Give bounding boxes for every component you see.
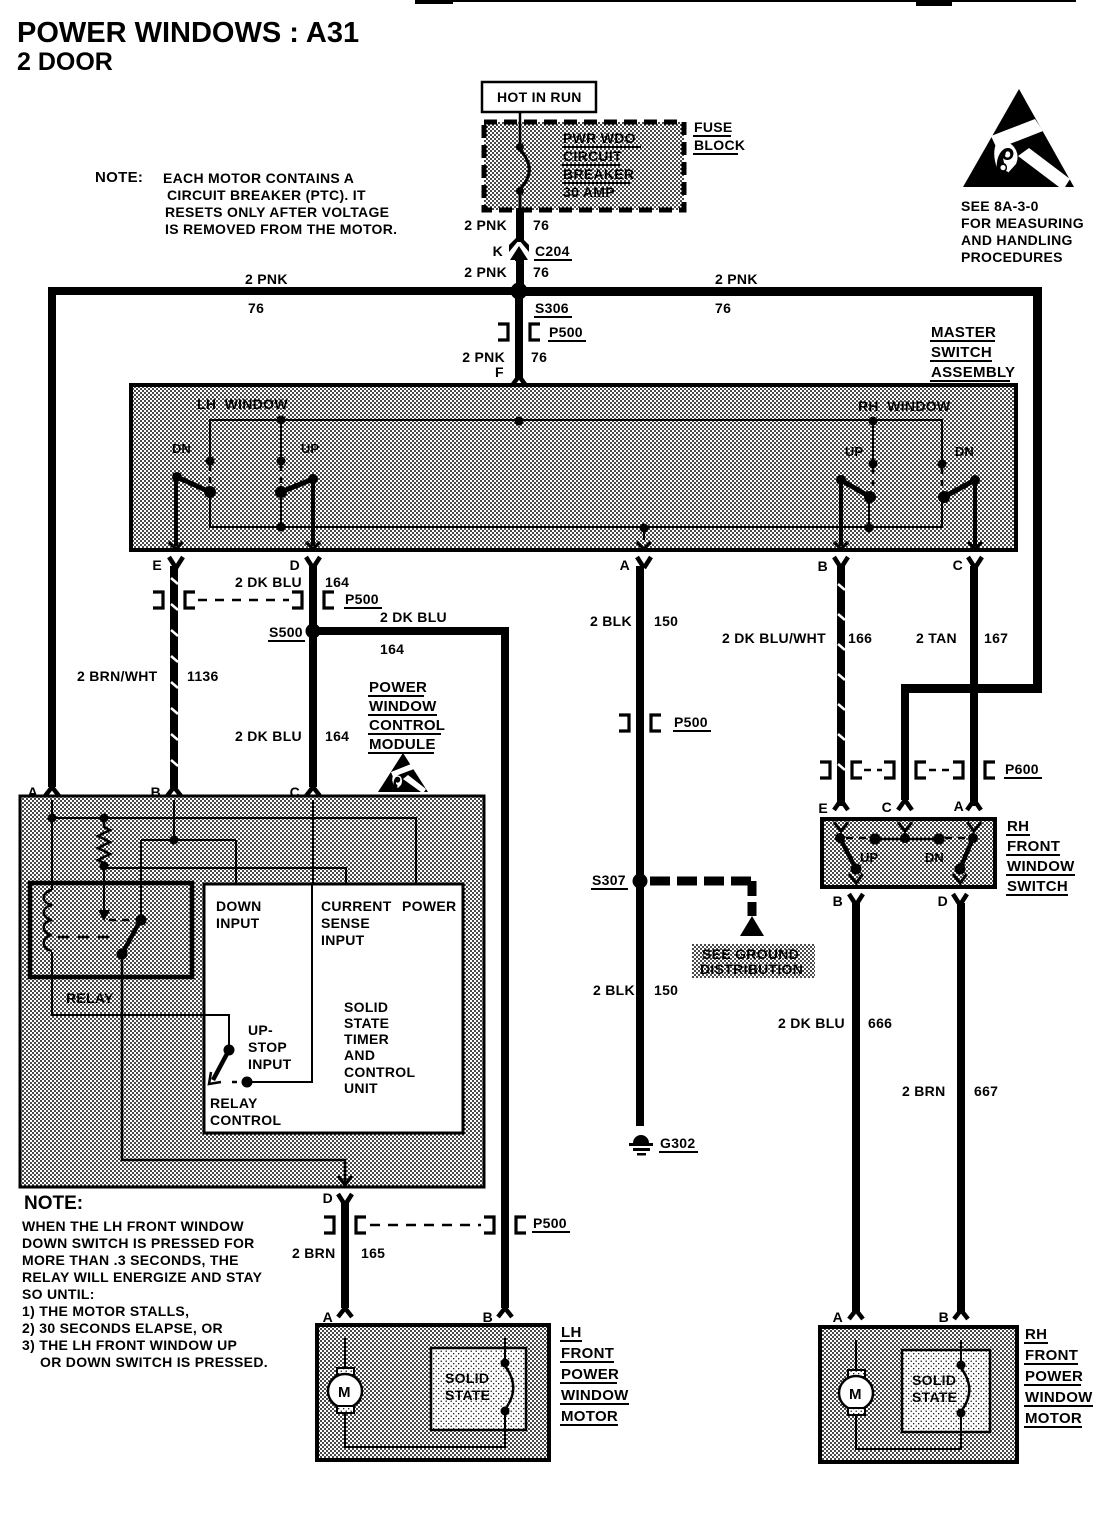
svg-text:B: B (483, 1309, 493, 1325)
connector C204 (493, 235, 572, 261)
connector P500 row D-motor (324, 1215, 570, 1233)
svg-text:667: 667 (974, 1083, 998, 1099)
RH switch contact bar (846, 831, 968, 845)
svg-text:P500: P500 (345, 591, 379, 607)
svg-text:B: B (833, 893, 843, 909)
fuse block label (693, 119, 745, 154)
svg-text:POWER: POWER (402, 898, 456, 914)
svg-text:INPUT: INPUT (216, 915, 260, 931)
svg-text:CONTROL: CONTROL (210, 1112, 281, 1128)
node A ground tap (640, 524, 649, 533)
wire left riser 2 PNK to module A (48, 287, 56, 787)
svg-text:76: 76 (531, 349, 547, 365)
RH UP switch (836, 460, 878, 547)
svg-text:INPUT: INPUT (248, 1056, 292, 1072)
svg-text:SEE 8A-3-0: SEE 8A-3-0 (961, 198, 1039, 214)
svg-text:FUSE: FUSE (694, 119, 733, 135)
master top bus wire (210, 420, 942, 464)
fuse block (484, 122, 684, 210)
power window control module box (20, 796, 484, 1187)
RH motor label (1024, 1326, 1093, 1427)
svg-text:UP: UP (301, 441, 319, 456)
svg-text:C: C (882, 799, 892, 815)
ESD warning symbol large (963, 89, 1074, 187)
LH DN switch (172, 457, 216, 547)
RH switch pin E lead (818, 778, 848, 816)
svg-text:MOTOR: MOTOR (561, 1408, 618, 1425)
svg-text:1136: 1136 (187, 668, 219, 684)
svg-text:2 PNK: 2 PNK (464, 217, 507, 233)
svg-text:D: D (290, 557, 300, 573)
svg-text:P500: P500 (674, 714, 708, 730)
master switch assembly label (930, 324, 1015, 381)
svg-text:C204: C204 (535, 243, 570, 259)
connector P500 row E-D (153, 591, 382, 608)
svg-text:PWR WDO: PWR WDO (563, 130, 636, 146)
svg-text:S307: S307 (592, 872, 626, 888)
svg-text:DOWN SWITCH IS PRESSED FOR: DOWN SWITCH IS PRESSED FOR (22, 1235, 255, 1251)
svg-text:DN: DN (925, 850, 944, 865)
svg-text:STATE: STATE (344, 1015, 389, 1031)
svg-text:INPUT: INPUT (321, 932, 365, 948)
node RH UP lower (865, 524, 874, 533)
svg-text:BLOCK: BLOCK (694, 137, 745, 153)
svg-text:CONTROL: CONTROL (344, 1064, 415, 1080)
svg-text:UP: UP (845, 444, 863, 459)
module terminal B (151, 784, 181, 809)
power window control module label (368, 679, 445, 753)
svg-text:P500: P500 (549, 324, 583, 340)
wire A 2 BLK 150 (590, 566, 678, 876)
svg-text:RELAY WILL ENERGIZE AND STAY: RELAY WILL ENERGIZE AND STAY (22, 1269, 263, 1285)
wire D 2 DK BLU 164 lower (235, 634, 349, 787)
svg-text:S500: S500 (269, 624, 303, 640)
RH motor terminal B (939, 1309, 968, 1342)
node UP feed LH (277, 416, 286, 425)
svg-text:D: D (938, 893, 948, 909)
svg-text:E: E (152, 557, 162, 573)
wire 2 PNK 76 below fuse (464, 208, 549, 242)
LH motor M (328, 1338, 505, 1447)
relay box (30, 883, 192, 1006)
svg-text:165: 165 (361, 1245, 385, 1261)
svg-text:RH WINDOW: RH WINDOW (858, 398, 951, 414)
svg-text:2 DK BLU: 2 DK BLU (235, 574, 302, 590)
svg-text:D: D (323, 1190, 333, 1206)
svg-text:M: M (338, 1384, 351, 1401)
svg-text:A: A (323, 1309, 333, 1325)
svg-text:HOT IN RUN: HOT IN RUN (497, 89, 582, 105)
module current sense bus (104, 866, 346, 884)
svg-text:76: 76 (715, 300, 731, 316)
svg-text:EACH MOTOR CONTAINS A: EACH MOTOR CONTAINS A (163, 170, 354, 186)
relay output wire to D (122, 954, 345, 1184)
svg-text:A: A (620, 557, 630, 573)
LH UP switch (275, 457, 318, 547)
connector P500 on 2 BLK (619, 714, 711, 731)
relay coil feed from resistor (98, 880, 110, 921)
terminal C of master (953, 542, 982, 573)
svg-text:2) 30 SECONDS ELAPSE, OR: 2) 30 SECONDS ELAPSE, OR (22, 1320, 223, 1336)
svg-text:2 DK BLU: 2 DK BLU (778, 1015, 845, 1031)
svg-text:B: B (818, 558, 828, 574)
relay contact feed from B (140, 884, 142, 918)
svg-text:STATE: STATE (445, 1387, 490, 1403)
svg-text:OR DOWN SWITCH IS PRESSED.: OR DOWN SWITCH IS PRESSED. (40, 1354, 268, 1370)
svg-text:RELAY: RELAY (210, 1095, 258, 1111)
svg-text:30 AMP: 30 AMP (563, 184, 615, 200)
LH motor terminal B (483, 1308, 512, 1340)
svg-text:C: C (953, 557, 963, 573)
svg-text:TIMER: TIMER (344, 1031, 389, 1047)
RH switch UP blade (835, 833, 863, 883)
relay control label (210, 1095, 281, 1128)
note bottom (22, 1193, 268, 1370)
node F inside (515, 417, 524, 426)
RH switch pin C lead (882, 764, 912, 815)
master switch assembly box (131, 385, 1016, 550)
svg-text:167: 167 (984, 630, 1008, 646)
RH motor solid state box (902, 1350, 990, 1432)
wire C 2 TAN 167 (916, 566, 1008, 806)
svg-text:DISTRIBUTION: DISTRIBUTION (700, 961, 803, 977)
svg-text:MOTOR: MOTOR (1025, 1410, 1082, 1427)
wire 2 PNK 76 to F (462, 296, 547, 380)
svg-text:FRONT: FRONT (1007, 838, 1060, 855)
svg-text:SO UNTIL:: SO UNTIL: (22, 1286, 95, 1302)
note top (95, 169, 397, 237)
svg-text:666: 666 (868, 1015, 892, 1031)
wire D 2 DK BLU 164 upper (235, 566, 349, 628)
svg-text:UP-: UP- (248, 1022, 273, 1038)
svg-text:POWER: POWER (369, 679, 427, 696)
svg-text:SWITCH: SWITCH (931, 344, 992, 361)
svg-text:WINDOW: WINDOW (561, 1387, 629, 1404)
svg-text:CIRCUIT BREAKER (PTC). IT: CIRCUIT BREAKER (PTC). IT (167, 187, 366, 203)
terminal D of master (290, 542, 320, 573)
svg-text:RH: RH (1025, 1326, 1047, 1343)
svg-text:WINDOW: WINDOW (1025, 1389, 1093, 1406)
circuit breaker PWR WDO 30A (516, 112, 529, 210)
RH motor terminal A (833, 1309, 863, 1342)
svg-text:MODULE: MODULE (369, 736, 436, 753)
RH switch pin A lead (954, 778, 981, 814)
module terminal D (323, 1176, 352, 1206)
relay blade (117, 921, 141, 960)
svg-text:2 DK BLU: 2 DK BLU (235, 728, 302, 744)
svg-text:164: 164 (325, 574, 349, 590)
svg-text:2 BLK: 2 BLK (590, 613, 632, 629)
svg-text:2 BRN/WHT: 2 BRN/WHT (77, 668, 158, 684)
svg-text:2 BLK: 2 BLK (593, 982, 635, 998)
module A bus (48, 800, 417, 884)
svg-text:166: 166 (848, 630, 872, 646)
LH motor terminal A (323, 1308, 352, 1340)
svg-text:150: 150 (654, 982, 678, 998)
solid state unit box (204, 884, 463, 1133)
module B bus (141, 800, 236, 917)
svg-text:SOLID: SOLID (912, 1372, 956, 1388)
svg-text:MORE THAN .3 SECONDS, THE: MORE THAN .3 SECONDS, THE (22, 1252, 239, 1268)
LH motor breaker (501, 1338, 514, 1431)
svg-text:SWITCH: SWITCH (1007, 878, 1068, 895)
svg-text:2 DK BLU: 2 DK BLU (380, 609, 447, 625)
svg-text:2 PNK: 2 PNK (462, 349, 505, 365)
LH motor solid state box (431, 1348, 526, 1430)
svg-text:CURRENT: CURRENT (321, 898, 392, 914)
wire 2 PNK 76 left bus (48, 271, 519, 316)
svg-text:BREAKER: BREAKER (563, 166, 634, 182)
svg-text:AND HANDLING: AND HANDLING (961, 232, 1073, 248)
terminal F fork and arrow (511, 376, 527, 421)
svg-text:2 PNK: 2 PNK (464, 264, 507, 280)
svg-text:SOLID: SOLID (445, 1370, 489, 1386)
svg-text:FRONT: FRONT (561, 1345, 614, 1362)
terminal E of master (152, 542, 183, 573)
dashed wire to ground distribution (650, 881, 764, 936)
RH DN switch (938, 460, 981, 547)
svg-text:2 BRN: 2 BRN (902, 1083, 946, 1099)
relay contact from B (136, 915, 147, 926)
svg-text:2 TAN: 2 TAN (916, 630, 957, 646)
svg-text:NOTE:: NOTE: (24, 1193, 83, 1214)
svg-text:76: 76 (248, 300, 264, 316)
svg-text:AND: AND (344, 1047, 375, 1063)
arrow into E pin (834, 822, 848, 831)
svg-text:WHEN THE LH FRONT WINDOW: WHEN THE LH FRONT WINDOW (22, 1218, 244, 1234)
up-stop input switch (204, 1015, 292, 1088)
LH front power window motor box (317, 1325, 549, 1460)
arrow into C pin (898, 822, 912, 831)
resistor R in module (98, 822, 110, 871)
svg-text:A: A (833, 1309, 843, 1325)
scan artifact top line (415, 0, 1076, 6)
svg-text:ASSEMBLY: ASSEMBLY (931, 364, 1015, 381)
svg-text:STATE: STATE (912, 1389, 957, 1405)
wire 2 PNK 76 right bus (519, 271, 1042, 316)
module terminal A (28, 784, 59, 809)
svg-text:UP: UP (860, 850, 878, 865)
HOT IN RUN box (482, 82, 596, 112)
module C input line / divider (252, 800, 313, 1082)
module terminal C (290, 784, 320, 809)
svg-text:2 PNK: 2 PNK (245, 271, 288, 287)
RH motor M (839, 1340, 961, 1449)
svg-text:G302: G302 (660, 1135, 695, 1151)
svg-text:STOP: STOP (248, 1039, 287, 1055)
svg-text:164: 164 (380, 641, 404, 657)
svg-text:PROCEDURES: PROCEDURES (961, 249, 1063, 265)
svg-text:SENSE: SENSE (321, 915, 370, 931)
svg-text:2 BRN: 2 BRN (292, 1245, 336, 1261)
RH switch terminal D (938, 893, 967, 909)
node UP feed RH (869, 417, 878, 426)
svg-text:LH WINDOW: LH WINDOW (197, 396, 288, 412)
svg-text:WINDOW: WINDOW (1007, 858, 1075, 875)
svg-text:RESETS ONLY AFTER VOLTAGE: RESETS ONLY AFTER VOLTAGE (165, 204, 389, 220)
splice S307 (591, 872, 648, 889)
terminal A of master (620, 542, 651, 573)
svg-text:M: M (849, 1386, 862, 1403)
wire 2 DK BLU 164 from S500 to LH motor B (313, 609, 509, 1308)
connector P500 on 2 PNK (498, 324, 586, 341)
svg-text:CIRCUIT: CIRCUIT (563, 148, 622, 164)
svg-text:RH: RH (1007, 818, 1029, 835)
svg-text:UNIT: UNIT (344, 1080, 378, 1096)
svg-text:SOLID: SOLID (344, 999, 388, 1015)
ESD note text (961, 198, 1084, 265)
svg-text:1) THE MOTOR STALLS,: 1) THE MOTOR STALLS, (22, 1303, 189, 1319)
master bottom bus wire (210, 494, 942, 540)
svg-text:2 DK BLU/WHT: 2 DK BLU/WHT (722, 630, 826, 646)
svg-text:WINDOW: WINDOW (369, 698, 437, 715)
RH switch DN blade (953, 833, 978, 883)
splice S500 (268, 624, 321, 642)
ESD warning symbol small (378, 753, 428, 792)
svg-text:150: 150 (654, 613, 678, 629)
svg-text:164: 164 (325, 728, 349, 744)
RH front window switch box (822, 819, 995, 887)
svg-text:FRONT: FRONT (1025, 1347, 1078, 1364)
svg-text:76: 76 (533, 217, 549, 233)
svg-text:POWER: POWER (561, 1366, 619, 1383)
svg-text:CONTROL: CONTROL (369, 717, 445, 734)
connector P600 row (820, 761, 1042, 778)
svg-text:POWER: POWER (1025, 1368, 1083, 1385)
wire B 2 DK BLU/WHT 166 (722, 566, 872, 806)
svg-text:RELAY: RELAY (66, 990, 114, 1006)
RH switch label (1006, 818, 1075, 895)
RH switch terminal B (833, 893, 863, 909)
wire 2 BLK 150 to G302 (593, 876, 678, 1126)
terminal B of master (818, 542, 848, 574)
svg-text:3) THE LH FRONT WINDOW UP: 3) THE LH FRONT WINDOW UP (22, 1337, 237, 1353)
RH motor breaker (957, 1340, 970, 1433)
relay coil (44, 800, 229, 1050)
svg-text:F: F (495, 364, 504, 380)
ground G302 (629, 1135, 698, 1156)
svg-text:DN: DN (172, 441, 191, 456)
wire E 2 BRN/WHT 1136 (77, 566, 219, 788)
svg-text:MASTER: MASTER (931, 324, 996, 341)
relay contact dash (109, 919, 133, 922)
svg-text:P600: P600 (1005, 761, 1039, 777)
wire right riser down (1033, 287, 1042, 693)
svg-text:S306: S306 (535, 300, 569, 316)
svg-text:B: B (939, 1309, 949, 1325)
wire 2 BRN 165 (292, 1203, 385, 1308)
svg-text:FOR MEASURING: FOR MEASURING (961, 215, 1084, 231)
svg-text:DOWN: DOWN (216, 898, 262, 914)
wire 2 PNK 76 below C204 (464, 258, 549, 286)
svg-text:IS REMOVED FROM THE MOTOR.: IS REMOVED FROM THE MOTOR. (165, 221, 397, 237)
svg-text:SEE GROUND: SEE GROUND (702, 946, 799, 962)
svg-text:P500: P500 (533, 1215, 567, 1231)
wire jog to RH switch C (901, 684, 1042, 764)
LH motor label (560, 1324, 629, 1425)
svg-text:2 PNK: 2 PNK (715, 271, 758, 287)
svg-text:LH: LH (561, 1324, 582, 1341)
relay mechanical link (58, 936, 118, 939)
title (17, 17, 359, 76)
svg-text:DN: DN (955, 444, 974, 459)
splice S306 node (511, 283, 573, 318)
see ground distribution label (692, 944, 815, 978)
arrow into A pin (967, 822, 981, 831)
wire 2 BRN 667 (902, 903, 998, 1313)
svg-text:2 DOOR: 2 DOOR (17, 48, 113, 76)
wire 2 DK BLU 666 (778, 903, 892, 1313)
svg-text:POWER WINDOWS : A31: POWER WINDOWS : A31 (17, 17, 359, 49)
svg-text:NOTE:: NOTE: (95, 169, 143, 186)
svg-text:76: 76 (533, 264, 549, 280)
svg-text:K: K (493, 243, 503, 259)
node LH UP lower (277, 523, 286, 532)
svg-text:E: E (818, 800, 828, 816)
svg-text:A: A (954, 798, 964, 814)
RH front power window motor box (820, 1327, 1017, 1462)
